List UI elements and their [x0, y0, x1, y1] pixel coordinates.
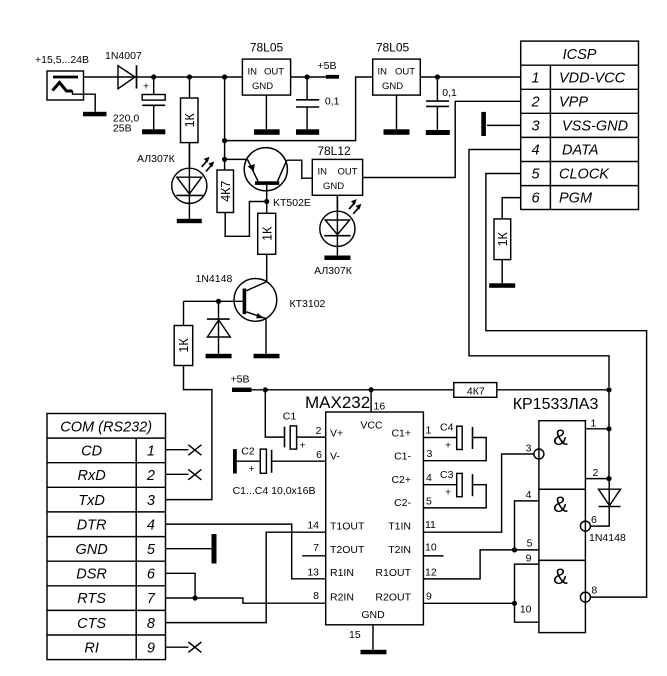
svg-text:8: 8: [147, 616, 155, 632]
svg-text:+: +: [445, 487, 451, 499]
svg-text:+: +: [143, 81, 149, 93]
power jack X1: [35, 54, 95, 112]
svg-text:R2IN: R2IN: [330, 592, 354, 604]
svg-text:3: 3: [147, 493, 155, 509]
node J: [216, 299, 221, 304]
capacitor 220,0 25В: [113, 77, 165, 135]
svg-text:R1OUT: R1OUT: [375, 567, 411, 579]
wire +5В rail: [252, 389, 454, 391]
svg-text:DTR: DTR: [77, 517, 107, 533]
capacitor C3: [423, 469, 486, 508]
diode VD1 1N4007: [105, 50, 142, 89]
node Q: [606, 476, 611, 481]
node S: [512, 601, 517, 606]
wire pin7 stub: [302, 555, 326, 557]
svg-text:1N4148: 1N4148: [589, 532, 626, 544]
svg-text:+5В: +5В: [231, 374, 250, 386]
svg-text:R1IN: R1IN: [330, 567, 354, 579]
svg-text:+: +: [445, 440, 451, 452]
svg-text:16: 16: [374, 401, 386, 413]
wire: [224, 77, 226, 170]
svg-text:CLOCK: CLOCK: [559, 167, 610, 183]
ground: [254, 354, 280, 359]
wire: [183, 301, 185, 325]
svg-text:4К7: 4К7: [219, 181, 233, 202]
ground: [361, 650, 387, 655]
wire gate1 input pin1: [585, 428, 609, 430]
svg-text:C3: C3: [440, 469, 454, 481]
wire: [420, 76, 520, 78]
wire: [266, 254, 268, 281]
resistor R3 1К: [258, 202, 276, 255]
wire DSR: [166, 573, 196, 598]
pin 6 inversion bubble: [580, 521, 590, 531]
svg-text:C1: C1: [283, 411, 297, 423]
svg-text:1К: 1К: [260, 226, 274, 241]
node A: [151, 74, 156, 79]
diode VD5 1N4148: [589, 479, 626, 544]
wire pin10 stub: [423, 555, 443, 557]
regulator U1 78L05: [242, 41, 290, 96]
svg-text:VSS-GND: VSS-GND: [562, 119, 628, 135]
regulator U2 78L05: [373, 41, 421, 96]
svg-text:IN: IN: [248, 67, 258, 78]
svg-text:C1...C4 10,0x16В: C1...C4 10,0x16В: [233, 485, 316, 497]
svg-text:V-: V-: [330, 451, 340, 463]
svg-text:7: 7: [147, 591, 156, 607]
svg-text:1N4148: 1N4148: [196, 273, 233, 285]
svg-text:C2+: C2+: [391, 474, 411, 486]
node M: [369, 387, 374, 392]
wire GND pin15: [372, 625, 374, 650]
svg-text:9: 9: [526, 553, 532, 565]
wire: [265, 95, 267, 129]
wire: [225, 158, 248, 160]
svg-text:C2: C2: [241, 446, 255, 458]
node N: [606, 387, 611, 392]
terminal +5В (MAX232): [231, 374, 252, 393]
wire: [396, 95, 398, 129]
svg-text:GND: GND: [252, 81, 273, 92]
svg-text:+15,5...24В: +15,5...24В: [35, 54, 89, 66]
svg-text:GND: GND: [382, 81, 403, 92]
wire: [291, 76, 326, 78]
svg-text:T1OUT: T1OUT: [330, 521, 365, 533]
wire DATA net: [469, 150, 609, 388]
wire RxD stub: [166, 473, 189, 475]
svg-text:2: 2: [530, 94, 539, 110]
wire RTS to R2IN: [166, 598, 326, 603]
wire R1OUT net: [423, 550, 539, 579]
svg-text:0,1: 0,1: [325, 95, 340, 107]
wire DTR to R1IN: [166, 524, 326, 579]
capacitor C5 0,1: [296, 77, 340, 129]
svg-text:8: 8: [591, 585, 597, 597]
wire GND5: [166, 548, 212, 550]
svg-text:PGM: PGM: [559, 190, 593, 206]
pin 8 inversion bubble: [580, 592, 590, 602]
svg-text:RxD: RxD: [77, 468, 105, 484]
svg-text:+5В: +5В: [318, 60, 337, 72]
terminal VSS-GND bar: [481, 112, 486, 136]
svg-text:АЛ307К: АЛ307К: [137, 153, 176, 165]
svg-text:7: 7: [313, 542, 319, 554]
pin 3 inversion bubble: [534, 449, 544, 459]
svg-text:2: 2: [593, 467, 599, 479]
svg-text:11: 11: [425, 519, 436, 531]
svg-text:1: 1: [147, 444, 155, 460]
svg-text:CD: CD: [81, 444, 102, 460]
node K: [193, 595, 198, 600]
terminal GND bar: [212, 534, 217, 564]
svg-text:9: 9: [147, 640, 155, 656]
svg-text:1К: 1К: [496, 231, 510, 246]
svg-text:0,1: 0,1: [442, 87, 457, 99]
IC U5 КР1533ЛА3: [513, 396, 599, 633]
svg-text:&: &: [553, 564, 568, 589]
svg-text:RI: RI: [84, 640, 99, 656]
capacitor C4: [423, 422, 486, 461]
capacitor C6 0,1: [426, 77, 457, 130]
node E: [222, 157, 227, 162]
node C: [222, 74, 227, 79]
svg-text:9: 9: [426, 591, 432, 603]
svg-text:6: 6: [147, 567, 156, 583]
svg-text:3: 3: [526, 443, 532, 455]
svg-text:10: 10: [425, 542, 437, 554]
wire VSS stub: [487, 124, 521, 126]
svg-text:RTS: RTS: [77, 591, 106, 607]
svg-text:C1-: C1-: [394, 451, 411, 463]
wire: [501, 260, 503, 284]
wire base net: [184, 300, 243, 302]
svg-text:25В: 25В: [113, 123, 132, 135]
svg-text:78L05: 78L05: [376, 41, 410, 55]
node G: [305, 74, 310, 79]
wire CD stub: [166, 449, 189, 451]
svg-text:GND: GND: [323, 181, 344, 192]
svg-text:1К: 1К: [177, 338, 191, 353]
svg-text:&: &: [553, 425, 568, 450]
wire: [336, 195, 338, 212]
wire: [608, 390, 610, 479]
svg-text:T1IN: T1IN: [388, 521, 411, 533]
ground: [177, 219, 202, 223]
wire: [497, 389, 609, 391]
node P: [606, 426, 611, 431]
svg-text:1: 1: [531, 70, 539, 86]
svg-text:6: 6: [316, 449, 322, 461]
svg-text:3: 3: [427, 448, 433, 460]
resistor R5 4К7: [454, 383, 497, 398]
transistor VT2 KT3102: [234, 279, 326, 322]
svg-text:4: 4: [531, 143, 539, 159]
svg-text:1: 1: [591, 418, 597, 430]
svg-text:&: &: [553, 492, 568, 517]
wire gate1 input pin2: [585, 478, 609, 480]
wire: [287, 160, 313, 178]
ground: [206, 354, 232, 359]
svg-text:2: 2: [146, 468, 155, 484]
svg-text:1: 1: [426, 425, 432, 437]
svg-text:1N4007: 1N4007: [105, 50, 142, 62]
svg-text:C2-: C2-: [394, 497, 411, 509]
svg-text:14: 14: [307, 520, 319, 532]
svg-text:COM (RS232): COM (RS232): [60, 420, 152, 436]
wire R2OUT net: [423, 602, 514, 604]
IC U4 MAX232: [305, 393, 437, 641]
svg-text:+: +: [249, 463, 255, 475]
svg-text:5: 5: [531, 167, 540, 183]
svg-text:T2OUT: T2OUT: [330, 544, 365, 556]
svg-text:VPP: VPP: [559, 94, 588, 110]
regulator U3 78L12: [312, 144, 362, 195]
ground: [83, 112, 107, 117]
wire: [515, 603, 539, 622]
no-connect X RxD: [188, 469, 201, 479]
svg-text:T2IN: T2IN: [388, 544, 411, 556]
resistor R6 1К: [494, 219, 511, 260]
ground: [384, 129, 410, 135]
capacitor C2: [233, 446, 326, 476]
svg-text:4К7: 4К7: [467, 386, 485, 398]
node L: [263, 387, 268, 392]
capacitor C1: [265, 390, 325, 452]
wire: [84, 76, 243, 78]
ground: [296, 129, 319, 135]
ground: [426, 130, 450, 135]
svg-text:OUT: OUT: [395, 67, 415, 78]
svg-text:4: 4: [426, 472, 432, 484]
svg-text:2: 2: [316, 425, 322, 437]
svg-text:TxD: TxD: [78, 493, 105, 509]
svg-text:C1+: C1+: [391, 428, 411, 440]
svg-text:4: 4: [147, 517, 155, 533]
svg-text:5: 5: [527, 538, 533, 550]
svg-text:5: 5: [147, 542, 156, 558]
svg-text:VCC: VCC: [360, 420, 383, 432]
wire TxD net: [166, 366, 212, 500]
diode VD4 1N4148: [196, 273, 233, 354]
resistor R4 1К: [174, 326, 193, 366]
ground: [254, 129, 280, 135]
no-connect X CD: [188, 445, 201, 455]
connector X2 COM RS232: [47, 414, 166, 660]
wire VPP net: [363, 101, 521, 177]
svg-text:6: 6: [591, 514, 597, 526]
wire: [515, 564, 539, 603]
svg-text:V+: V+: [330, 428, 343, 440]
node B: [187, 74, 192, 79]
wire VCC pin16: [370, 390, 372, 412]
svg-text:78L12: 78L12: [317, 144, 351, 158]
svg-text:78L05: 78L05: [250, 41, 284, 55]
LED VD3 АЛ307К: [314, 195, 361, 277]
svg-text:+: +: [300, 440, 306, 452]
svg-text:IN: IN: [378, 67, 388, 78]
svg-text:C4: C4: [440, 422, 454, 434]
wire: [225, 77, 373, 141]
svg-text:ICSP: ICSP: [563, 47, 597, 63]
connector X3 ICSP: [521, 41, 639, 209]
wire T1IN net: [423, 454, 534, 532]
wire PGM: [502, 198, 521, 219]
svg-text:АЛ307К: АЛ307К: [314, 265, 353, 277]
wire CTS to T1OUT: [166, 532, 326, 622]
svg-text:13: 13: [307, 566, 319, 578]
svg-text:OUT: OUT: [264, 67, 284, 78]
svg-text:6: 6: [531, 190, 540, 206]
svg-text:10: 10: [520, 604, 532, 616]
node D: [222, 138, 227, 143]
wire RI stub: [166, 646, 189, 648]
ground: [142, 129, 165, 134]
svg-text:5: 5: [426, 496, 432, 508]
node H: [435, 74, 440, 79]
svg-text:R2OUT: R2OUT: [375, 592, 411, 604]
wire CLOCK net: [486, 174, 647, 598]
node R: [512, 547, 517, 552]
svg-text:8: 8: [313, 590, 319, 602]
svg-text:IN: IN: [318, 167, 328, 178]
terminal +5В: [318, 60, 340, 79]
svg-text:3: 3: [531, 119, 539, 135]
svg-text:КР1533ЛА3: КР1533ЛА3: [513, 396, 599, 413]
svg-text:KT502E: KT502E: [273, 197, 311, 209]
ground: [324, 256, 350, 261]
svg-text:GND: GND: [75, 542, 107, 558]
svg-text:VDD-VCC: VDD-VCC: [559, 70, 626, 86]
svg-text:MAX232: MAX232: [305, 393, 370, 412]
no-connect X RI: [188, 642, 201, 652]
svg-text:15: 15: [349, 629, 361, 641]
svg-text:1К: 1К: [183, 112, 197, 127]
resistor R1 1К: [181, 77, 199, 169]
node F: [264, 199, 269, 204]
wire: [225, 202, 264, 237]
wire: [265, 319, 267, 354]
LED VD2 АЛ307К: [137, 143, 214, 219]
resistor R2 4К7: [217, 170, 234, 213]
svg-text:КТ3102: КТ3102: [290, 298, 326, 310]
svg-text:4: 4: [526, 489, 532, 501]
wire: [515, 501, 539, 550]
svg-text:12: 12: [425, 567, 437, 579]
svg-text:CTS: CTS: [77, 616, 106, 632]
svg-text:OUT: OUT: [337, 167, 357, 178]
svg-text:GND: GND: [361, 609, 385, 621]
svg-text:DATA: DATA: [562, 143, 599, 159]
transistor VT1 KT502E: [244, 148, 311, 209]
ground: [489, 283, 515, 288]
svg-text:DSR: DSR: [76, 567, 107, 583]
